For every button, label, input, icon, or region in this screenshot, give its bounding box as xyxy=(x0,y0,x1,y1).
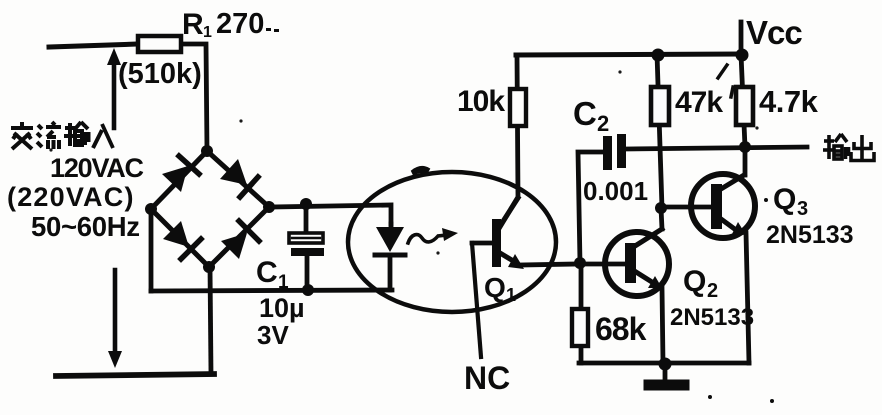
label 4.7k xyxy=(759,84,819,119)
label 10k xyxy=(457,85,505,118)
svg-text:2N5133: 2N5133 xyxy=(670,304,754,331)
wire: output line xyxy=(626,147,807,149)
svg-text:(510k): (510k) xyxy=(118,58,202,90)
svg-text:1: 1 xyxy=(203,24,212,41)
svg-text:10µ: 10µ xyxy=(259,293,305,323)
wire: Vcc stub xyxy=(739,22,744,54)
label 50~60Hz xyxy=(31,211,140,242)
bridge arm top-right wire xyxy=(207,151,269,207)
resistor 10k xyxy=(510,89,526,126)
svg-text:Vcc: Vcc xyxy=(746,14,802,51)
wire: bottom-left AC lead xyxy=(56,374,214,376)
svg-text:47k: 47k xyxy=(675,86,723,119)
bridge arm top-left wire xyxy=(151,151,207,209)
svg-text:NC: NC xyxy=(464,360,510,396)
arrow: AC input up arrow xyxy=(107,48,121,128)
node: bridge left junction xyxy=(145,203,157,215)
svg-text:2N5133: 2N5133 xyxy=(766,221,854,249)
label C1 xyxy=(256,256,289,293)
svg-text:R: R xyxy=(182,8,204,41)
bridge arm bottom-left wire xyxy=(151,209,209,267)
wire: 4.7k column xyxy=(741,54,745,147)
arrow: light coupling squiggle xyxy=(408,228,458,243)
svg-text:10k: 10k xyxy=(457,85,505,118)
svg-text:2: 2 xyxy=(597,111,609,136)
wire: 10k column xyxy=(500,56,518,227)
wire: NC lead xyxy=(472,243,481,357)
label 120VAC xyxy=(50,153,144,183)
wire: R1 to top of bridge xyxy=(181,44,207,151)
label Q1 xyxy=(484,272,516,305)
svg-text:270: 270 xyxy=(216,8,264,40)
stray mark tick xyxy=(731,87,733,97)
label Q2 xyxy=(683,265,718,302)
svg-text:Q: Q xyxy=(484,272,506,303)
label NC xyxy=(464,360,510,396)
phototransistor Q1 xyxy=(472,198,577,269)
wire: DC plus rail xyxy=(269,205,391,224)
diode D4 (bridge bottom-right) xyxy=(221,221,259,259)
label 2N5133 (Q3) xyxy=(766,221,854,249)
label Q3 xyxy=(764,183,808,220)
wire: bridge left to DC minus rail xyxy=(149,209,154,291)
label Vcc xyxy=(746,14,802,51)
svg-text:1: 1 xyxy=(506,285,516,305)
svg-text:120VAC: 120VAC xyxy=(50,153,144,183)
svg-text:2: 2 xyxy=(707,280,718,302)
label 0.001 xyxy=(583,176,648,206)
label (510k) xyxy=(118,58,202,90)
arrow: AC input down arrow xyxy=(108,270,122,368)
bridge arm bottom-right wire xyxy=(209,207,269,267)
diode D3 (bridge bottom-left) xyxy=(163,221,201,259)
transistor Q3 xyxy=(661,147,755,363)
svg-text:0.001: 0.001 xyxy=(583,176,648,206)
node: rail 47k junction xyxy=(652,49,665,62)
label 3V xyxy=(257,320,289,350)
label output (Chinese) xyxy=(823,134,874,161)
svg-text:68k: 68k xyxy=(595,311,647,347)
label 68k xyxy=(595,311,647,347)
resistor 4.7k xyxy=(736,87,753,125)
diode D2 (bridge top-right) xyxy=(220,159,258,197)
diode D1 (bridge top-left) xyxy=(162,156,199,192)
wire: 47k column xyxy=(657,54,662,208)
stray mark slash xyxy=(718,65,727,78)
label R1 270 xyxy=(182,8,279,41)
node: ground junction xyxy=(659,358,672,371)
node: Q1 emitter / Q2 base junction A xyxy=(574,257,586,269)
svg-text:Q: Q xyxy=(683,265,706,298)
label C2 xyxy=(573,95,609,136)
stray specks xyxy=(49,70,758,254)
wire: emitter bottom rail xyxy=(579,361,749,366)
svg-text:Q: Q xyxy=(773,183,796,216)
node: Q2 collector / Q3 base junction xyxy=(655,202,667,214)
svg-text:50~60Hz: 50~60Hz xyxy=(31,211,140,242)
resistor 47k xyxy=(651,87,669,125)
wire: top-left AC lead xyxy=(49,44,138,47)
label (220VAC) xyxy=(7,182,135,212)
svg-text:(220VAC): (220VAC) xyxy=(7,182,135,212)
label 10u xyxy=(259,293,305,323)
node: bridge top junction xyxy=(201,145,213,157)
svg-text:4.7k: 4.7k xyxy=(759,84,819,119)
ground xyxy=(649,363,684,385)
svg-text:1: 1 xyxy=(278,272,289,293)
resistor 68k xyxy=(572,309,588,346)
transistor Q2 xyxy=(582,208,669,363)
wire: DC minus rail xyxy=(151,290,392,291)
label 47k xyxy=(675,86,723,119)
wire: 68k column xyxy=(579,263,584,363)
LED D5 (optocoupler emitter) xyxy=(375,224,405,290)
svg-text:C: C xyxy=(573,95,597,132)
svg-text:3V: 3V xyxy=(257,320,289,350)
node: bridge bottom junction xyxy=(203,261,215,273)
node: C1 bottom junction xyxy=(302,284,314,296)
stray speck below 2N5133 xyxy=(708,395,774,403)
node: output junction xyxy=(739,141,751,153)
label AC input (Chinese) xyxy=(11,122,113,149)
node: bridge right junction xyxy=(263,201,275,213)
resistor R1 xyxy=(138,36,181,52)
wire: Vcc top rail xyxy=(516,54,741,55)
svg-text:C: C xyxy=(256,256,278,289)
node: rail Vcc junction xyxy=(736,49,749,62)
wire: bridge bottom AC return xyxy=(210,267,211,374)
capacitor C1 xyxy=(289,204,324,290)
optocoupler U1 ellipse xyxy=(348,167,556,312)
label 2N5133 (Q2) xyxy=(670,304,754,331)
node: C1 top junction xyxy=(300,198,312,210)
capacitor C2 xyxy=(578,134,626,263)
svg-text:3: 3 xyxy=(797,198,808,220)
